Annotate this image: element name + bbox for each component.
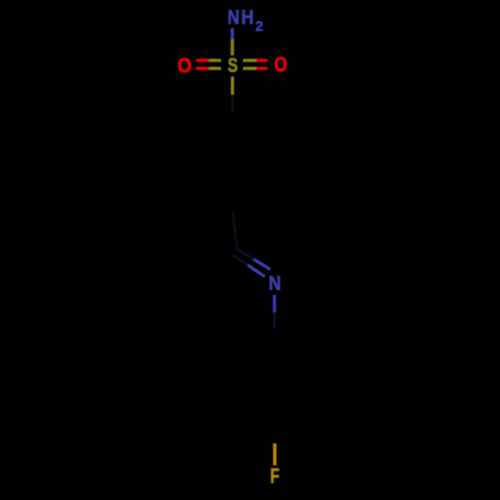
svg-text:N: N [227,5,239,28]
bond N-C8 carbon half (dark) [273,312,276,329]
svg-text:S: S [228,54,238,76]
svg-text:O: O [274,54,287,77]
ring2 edge C8-C9 [275,329,315,352]
ring1 edge C1-C2 [233,113,276,138]
bond N(amine)-S lower half (olive) [231,40,234,56]
bond S=O right, line 2 red half [256,67,268,70]
ring1 inner aromatic line C1-C2 [235,123,265,140]
svg-text:2: 2 [255,19,263,35]
bond C7=N main line carbon half (dark) [237,249,254,259]
ring1 edge C4-C5 [190,188,233,213]
bond C11-F carbon half (dark) [273,422,276,444]
ring1 edge C5-C6 [188,138,191,188]
bond C4-C7 (dark) [233,213,237,250]
ring2 inner aromatic line C10-C11 [277,396,305,412]
bond S=O left, line 1 olive half [209,59,221,62]
ring2 inner aromatic line C12-C13 [241,359,244,392]
ring1 edge C6-C1 [190,113,233,138]
ring1 edge C3-C4 [233,188,276,213]
ring2 edge C9-C10 [313,352,316,399]
bond C7=N second line carbon half (dark) [232,255,248,265]
ring2 edge C11-C12 [235,399,275,422]
bond S=O left, line 2 olive half [209,67,221,70]
bond C7=N second line blue half [248,265,265,276]
bond S-C1 carbon half (dark) [231,95,234,113]
bond S-C1 olive half [231,77,234,95]
ring1 inner aromatic line C5-C6 [196,145,199,180]
ring2 edge C12-C13 [233,352,236,399]
svg-text:O: O [178,54,192,77]
ring2 inner aromatic line C8-C9 [277,340,305,356]
bond S=O right, line 1 olive half [243,59,256,62]
svg-text:N: N [269,272,281,295]
bond C11-F gold half [273,444,277,466]
svg-text:H: H [241,6,254,28]
svg-text:F: F [270,464,279,488]
bond S=O right, line 1 red half [256,59,268,62]
bond S=O left, line 2 red half [196,67,209,70]
bond S=O right, line 2 olive half [243,67,256,70]
ring1 edge C2-C3 [274,138,277,188]
bond C7=N main line blue half [254,259,271,269]
bond N-C8 blue half [273,295,276,312]
ring1 inner aromatic line C3-C4 [235,185,265,203]
ring2 edge C13-C8 [235,329,275,352]
ring2 edge C10-C11 [275,399,315,422]
bond S=O left, line 1 red half [196,59,209,62]
bond N(amine)-S upper half (blue) [231,28,234,40]
